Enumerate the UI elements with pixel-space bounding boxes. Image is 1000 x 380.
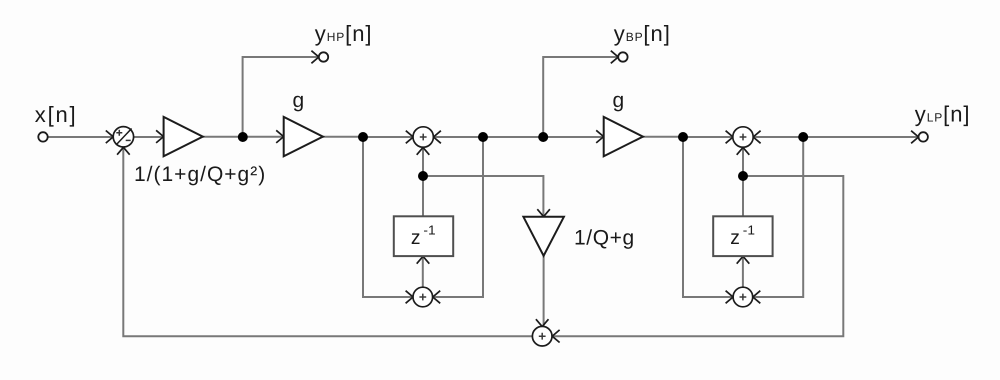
sum B1 bbox=[413, 287, 433, 307]
wire sum B3 output left and up to sum S0 bbox=[123, 147, 532, 336]
wire node N8 right and down to sum B3 right input bbox=[552, 176, 843, 336]
sum B3 feedback adder bbox=[532, 326, 552, 346]
svg-text:-1: -1 bbox=[743, 222, 755, 237]
value label g for A2 bbox=[293, 89, 305, 112]
wire node N4 to amp A3 bbox=[543, 136, 603, 138]
wire sum B1 up to delay Z1 bbox=[422, 256, 424, 287]
value label 1/(1+g/Q+g2) for A1 bbox=[134, 163, 266, 186]
wire node N3 to node N4 bbox=[483, 136, 543, 138]
node N6 bbox=[798, 132, 808, 142]
svg-text:x[n]: x[n] bbox=[35, 102, 78, 127]
wire node N5 to sum S2 bbox=[683, 136, 733, 138]
delay Z2 bbox=[713, 216, 772, 256]
node N2 bbox=[358, 132, 368, 142]
amp A3 gain g bbox=[604, 117, 643, 156]
arrowhead into S1 right bbox=[434, 131, 441, 144]
arrowhead into S1 bottom bbox=[417, 147, 430, 154]
wire delay Z2 output up to sum S2 bbox=[742, 147, 744, 216]
node N8 bbox=[738, 171, 748, 181]
input terminal x[n] bbox=[38, 132, 47, 141]
wire node N3 to sum S1 right input bbox=[434, 136, 484, 138]
label yBP[n] bbox=[614, 21, 671, 46]
arrowhead into B2 left bbox=[726, 291, 733, 304]
sum S2 bbox=[733, 127, 753, 147]
label yHP[n] bbox=[315, 21, 373, 46]
value label 1/Q+g for T4 bbox=[574, 227, 635, 250]
svg-text:yLP[n]: yLP[n] bbox=[915, 102, 971, 127]
label yLP[n] bbox=[915, 102, 971, 127]
svg-text:g: g bbox=[613, 89, 625, 112]
value label g for A3 bbox=[613, 89, 625, 112]
output terminal yLP bbox=[919, 132, 928, 141]
wire S0 to amp A1 bbox=[134, 136, 163, 138]
svg-text:1/(1+g/Q+g²): 1/(1+g/Q+g²) bbox=[134, 163, 266, 186]
amp A2 gain g bbox=[284, 117, 323, 156]
wire node N6 to sum S2 right input bbox=[753, 136, 803, 138]
node N3 bbox=[478, 132, 488, 142]
node N5 bbox=[678, 132, 688, 142]
arrowhead into T4 top bbox=[537, 209, 550, 216]
output terminal yBP bbox=[618, 52, 627, 61]
wire node N1 to amp A2 bbox=[242, 136, 283, 138]
arrowhead into S2 right bbox=[753, 131, 760, 144]
arrowhead into B3 top bbox=[536, 319, 549, 326]
arrowhead into A3 bbox=[596, 130, 603, 143]
arrowhead into B1 left bbox=[406, 291, 413, 304]
sum S0 input difference junction bbox=[113, 127, 133, 147]
svg-text:-1: -1 bbox=[423, 222, 435, 237]
svg-text:g: g bbox=[293, 89, 305, 112]
node N1 bbox=[238, 132, 248, 142]
wire node N2 down to sum B1 left input bbox=[363, 137, 413, 297]
arrowhead into Z2 bottom bbox=[737, 256, 750, 263]
delay Z1 bbox=[394, 216, 453, 256]
svg-text:z: z bbox=[730, 227, 740, 249]
output terminal yHP bbox=[319, 52, 328, 61]
sum S1 bbox=[413, 127, 433, 147]
wire node N2 to sum S1 bbox=[363, 136, 413, 138]
arrowhead into B1 right bbox=[433, 291, 440, 304]
amp T4 gain 1/Q+g pointing down bbox=[523, 217, 564, 256]
arrowhead into S0 bottom bbox=[117, 147, 130, 154]
arrowhead into Z1 bottom bbox=[417, 256, 430, 263]
svg-text:1/Q+g: 1/Q+g bbox=[574, 227, 635, 250]
arrowhead into B2 right bbox=[753, 291, 760, 304]
arrowhead into A1 bbox=[156, 130, 163, 143]
amp A1 gain 1/(1+g/Q+g2) bbox=[164, 117, 203, 156]
wire node N7 right and down to amp T4 bbox=[423, 176, 543, 216]
arrowhead into S2 bottom bbox=[737, 147, 750, 154]
wire sum B2 up to delay Z2 bbox=[742, 256, 744, 287]
arrowhead into S2 left bbox=[726, 131, 733, 144]
wire node N5 down to sum B2 left input bbox=[683, 137, 733, 297]
arrowhead into S0 left bbox=[106, 131, 113, 144]
sum B2 bbox=[733, 287, 753, 307]
wire node N6 to yLP terminal bbox=[803, 136, 918, 138]
wire A1 to node N1 bbox=[203, 136, 243, 138]
arrowhead into yLP terminal bbox=[911, 131, 918, 144]
wire A3 to node N5 bbox=[643, 136, 683, 138]
svg-text:z: z bbox=[411, 227, 421, 249]
wire node N1 up to yHP terminal bbox=[243, 57, 319, 137]
wire A2 to node N2 bbox=[323, 136, 363, 138]
arrowhead into A2 bbox=[276, 130, 283, 143]
wire amp T4 output down to sum B3 bbox=[543, 256, 545, 327]
wire delay Z1 output up to sum S1 bbox=[422, 147, 424, 216]
wire node N3 down to sum B1 right input bbox=[433, 137, 483, 297]
arrowhead into yBP terminal bbox=[611, 51, 618, 64]
node N4 bbox=[538, 132, 548, 142]
wire node N4 up to yBP terminal bbox=[543, 57, 618, 137]
label x[n] bbox=[35, 102, 78, 127]
wire input x[n] to sum S0 bbox=[48, 136, 113, 138]
arrowhead into B3 right bbox=[552, 330, 559, 343]
arrowhead into yHP terminal bbox=[311, 51, 318, 64]
wire node N6 down to sum B2 right input bbox=[753, 137, 803, 297]
node N7 bbox=[418, 171, 428, 181]
arrowhead into S1 left bbox=[406, 131, 413, 144]
